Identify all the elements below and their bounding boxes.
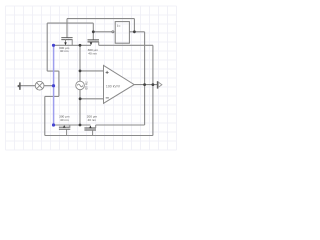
- svg-text:100 kV/V: 100 kV/V: [106, 85, 121, 89]
- svg-text:60 Hz: 60 Hz: [85, 81, 89, 90]
- svg-text:40 nm: 40 nm: [60, 49, 69, 53]
- svg-text:40 nm: 40 nm: [60, 118, 69, 122]
- svg-text:40 nm: 40 nm: [88, 52, 97, 56]
- svg-text:40 nm: 40 nm: [87, 118, 96, 122]
